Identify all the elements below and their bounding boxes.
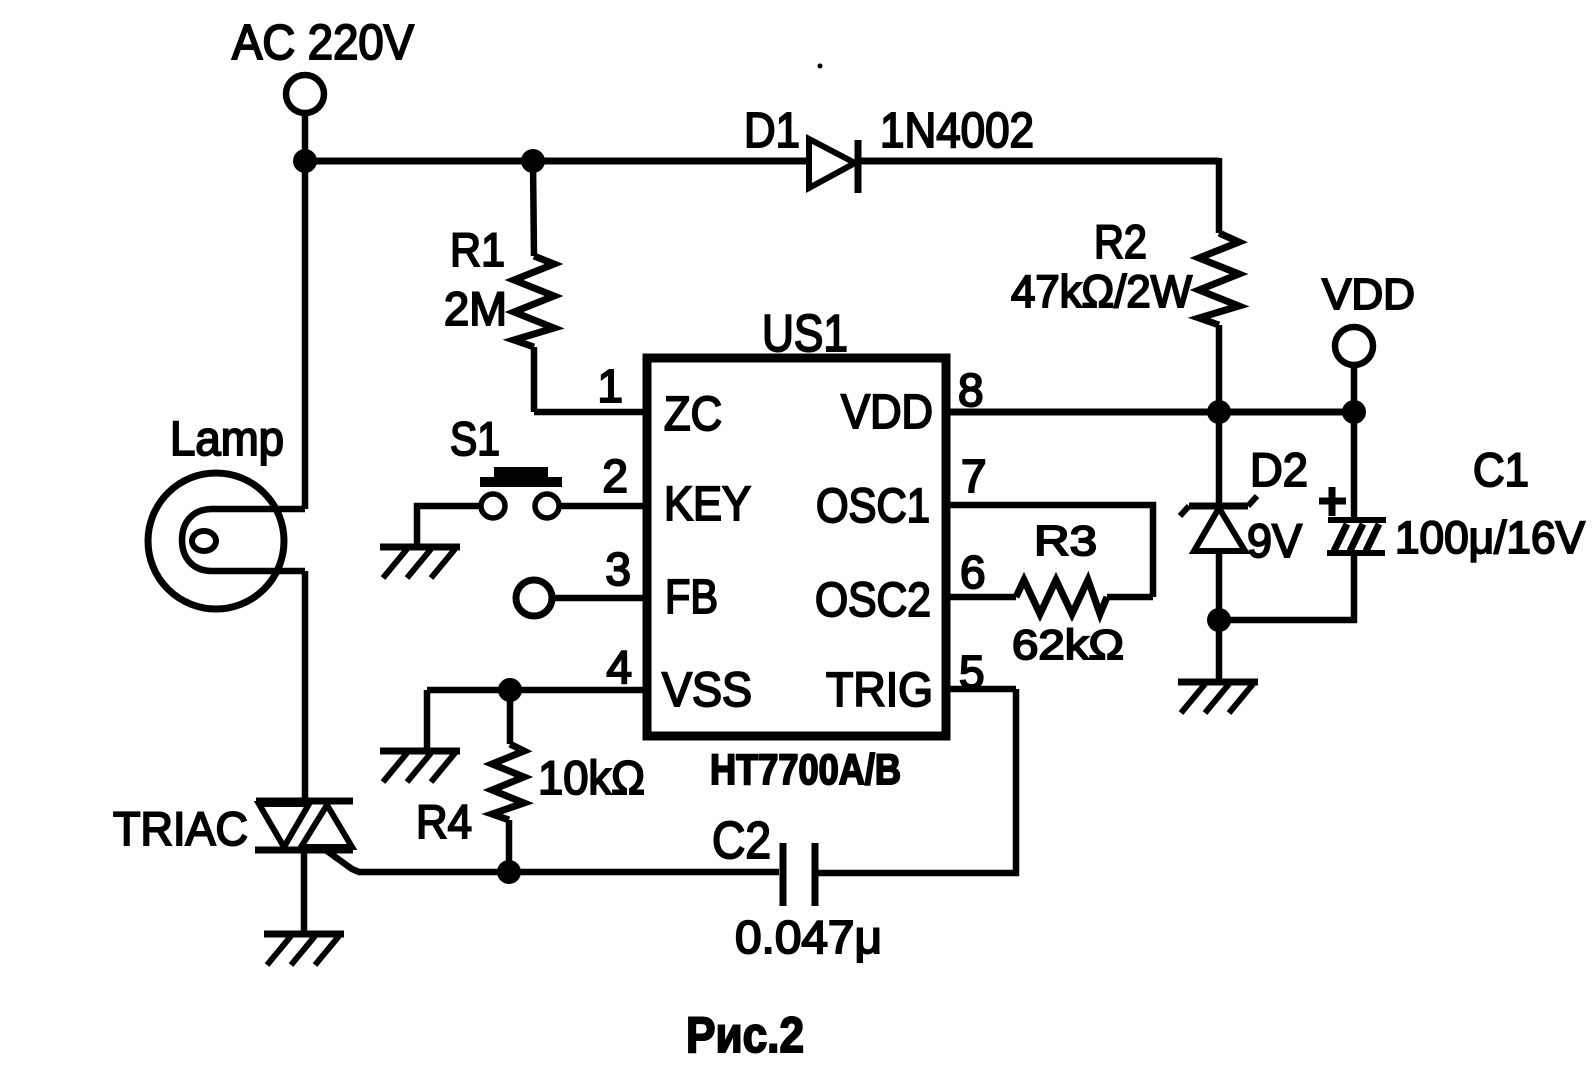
svg-text:OSC2: OSC2 — [815, 574, 931, 627]
wire R2 to VDD node — [1216, 325, 1223, 412]
svg-text:HT7700A/B: HT7700A/B — [710, 746, 901, 794]
wire VDD rail — [946, 409, 1354, 416]
wire top rail left — [305, 158, 811, 165]
svg-text:Lamp: Lamp — [170, 413, 284, 466]
ground pin4 — [380, 751, 460, 782]
ground S1 — [380, 547, 460, 578]
svg-text:ZC: ZC — [664, 388, 722, 441]
svg-text:TRIAC: TRIAC — [113, 802, 248, 855]
wire pin3 — [552, 595, 647, 602]
IC US1 body — [647, 358, 946, 736]
wire pin4 — [427, 687, 647, 694]
svg-text:4: 4 — [606, 641, 632, 693]
junction pin4-R4 — [498, 678, 522, 702]
wire pin1 — [534, 409, 647, 416]
svg-text:VSS: VSS — [662, 664, 752, 717]
svg-text:0.047μ: 0.047μ — [735, 911, 882, 963]
capacitor C1 — [1327, 412, 1386, 553]
svg-text:1N4002: 1N4002 — [880, 104, 1034, 158]
plus sign C1 — [1319, 487, 1346, 516]
FB terminal circle — [516, 580, 552, 616]
svg-text:C1: C1 — [1473, 443, 1529, 496]
junction VDD-C1 — [1342, 400, 1366, 424]
junction R4-C2 — [497, 860, 521, 884]
svg-text:9V: 9V — [1247, 514, 1303, 567]
resistor R3 — [946, 580, 1153, 614]
wire pin4 to ground — [424, 690, 431, 750]
ground D2 — [1178, 682, 1258, 713]
terminal VDD — [1335, 327, 1373, 365]
svg-text:OSC1: OSC1 — [816, 480, 930, 533]
svg-text:R3: R3 — [1034, 517, 1097, 564]
speck artifact — [818, 64, 823, 69]
diode D1 — [809, 139, 858, 193]
svg-text:C2: C2 — [712, 812, 771, 870]
wire lamp lower — [302, 571, 309, 801]
svg-text:1: 1 — [597, 360, 623, 412]
svg-text:47kΩ/2W: 47kΩ/2W — [1011, 266, 1193, 317]
triac — [255, 801, 353, 850]
node A junction — [293, 149, 317, 173]
junction node B — [521, 149, 545, 173]
svg-text:Рис.2: Рис.2 — [686, 1007, 804, 1063]
zener diode D2 — [1180, 496, 1257, 551]
svg-text:62kΩ: 62kΩ — [1012, 621, 1124, 668]
wire pin7 — [946, 505, 1153, 597]
capacitor C2 — [783, 843, 815, 906]
svg-text:FB: FB — [665, 571, 718, 624]
wire C2 to pin5 — [815, 689, 1016, 873]
svg-text:VDD: VDD — [1322, 270, 1415, 319]
svg-text:6: 6 — [960, 546, 986, 598]
wire VDD node to D2 — [1216, 412, 1223, 504]
junction VDD-R2 — [1207, 400, 1231, 424]
wire pin5 — [946, 686, 1016, 693]
svg-text:KEY: KEY — [664, 478, 751, 531]
svg-text:R2: R2 — [1094, 215, 1147, 268]
resistor R4 — [492, 690, 524, 872]
resistor R2 — [1199, 233, 1239, 325]
terminal AC 220V — [286, 75, 324, 113]
svg-text:7: 7 — [961, 450, 987, 502]
wire terminal to node A — [302, 113, 309, 161]
svg-text:10kΩ: 10kΩ — [538, 751, 645, 804]
lamp — [148, 473, 305, 609]
svg-text:AC 220V: AC 220V — [232, 16, 414, 70]
wire D2 node to ground — [1216, 620, 1223, 682]
wire lamp upper — [302, 161, 309, 509]
switch S1 — [480, 467, 562, 518]
wire corner to R2 — [1216, 158, 1223, 233]
wire top rail right — [858, 158, 1219, 165]
svg-text:VDD: VDD — [841, 386, 933, 439]
svg-text:D2: D2 — [1250, 443, 1308, 496]
svg-text:2M: 2M — [444, 282, 507, 335]
junction D2-C1 bottom — [1207, 608, 1231, 632]
wire S1 to ground — [417, 506, 481, 545]
svg-text:100μ/16V: 100μ/16V — [1395, 512, 1585, 563]
svg-text:R1: R1 — [450, 223, 505, 276]
svg-text:D1: D1 — [744, 104, 800, 158]
svg-text:US1: US1 — [762, 305, 848, 363]
wire triac gate — [327, 851, 779, 872]
wire D2 to gnd node — [1216, 551, 1223, 620]
svg-text:S1: S1 — [450, 412, 500, 465]
svg-text:8: 8 — [958, 364, 984, 416]
wire VDD terminal — [1351, 365, 1358, 412]
svg-text:3: 3 — [605, 543, 631, 595]
wire pin2 — [559, 503, 647, 510]
resistor R1 — [514, 161, 554, 412]
ground triac — [264, 934, 344, 965]
svg-text:R4: R4 — [416, 795, 472, 848]
svg-text:2: 2 — [602, 450, 628, 502]
wire bottom D2 to C1 — [1219, 555, 1354, 620]
wire triac to ground — [301, 850, 308, 934]
svg-text:TRIG: TRIG — [826, 664, 933, 717]
